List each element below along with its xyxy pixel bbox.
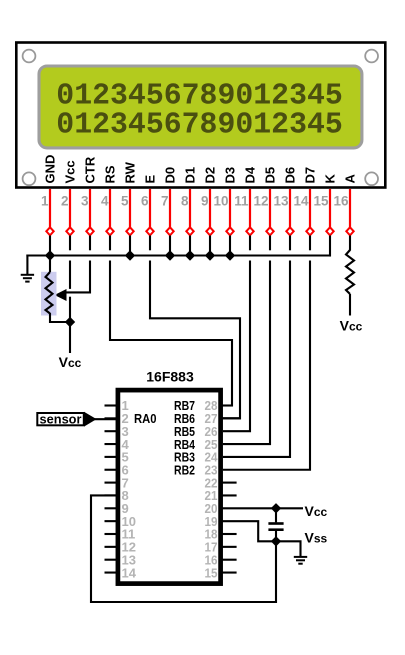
- wire U1 pin19 Vss: [221, 521, 276, 541]
- svg-text:5: 5: [121, 193, 129, 208]
- U1 left pin 7 stub: [105, 482, 118, 484]
- svg-text:15: 15: [205, 565, 218, 580]
- LCD pin 13 D6 red lead: [289, 189, 291, 227]
- svg-text:RA0: RA0: [134, 411, 157, 426]
- svg-text:D0: D0: [163, 167, 178, 184]
- svg-text:16F883: 16F883: [146, 369, 194, 385]
- junction Vdd / C1 top: [271, 503, 281, 513]
- svg-text:7: 7: [161, 193, 169, 208]
- svg-text:A: A: [343, 174, 358, 184]
- wire C1 bottom lead: [275, 531, 277, 542]
- U1 right pin 22 stub: [221, 482, 237, 484]
- U1 right pin 18 stub: [221, 533, 237, 535]
- svg-text:Vcc: Vcc: [63, 160, 78, 183]
- svg-text:13: 13: [273, 193, 289, 208]
- wire pin5 RW drop: [129, 236, 131, 257]
- wire pin10 D3 drop: [229, 236, 231, 257]
- LCD pin 11 connector diamond: [246, 227, 253, 235]
- LCD pin 12 D5 red lead: [269, 189, 271, 227]
- svg-text:D7: D7: [303, 167, 318, 184]
- potentiometer RV1 body: [41, 272, 57, 316]
- LCD pin 7 D0 red lead: [169, 189, 171, 227]
- wire R1 to Vcc: [349, 294, 351, 316]
- junction pot bottom / Vcc: [65, 317, 75, 327]
- LCD pin 9 connector diamond: [206, 227, 213, 235]
- wire U1 pin20 Vdd: [221, 507, 303, 509]
- svg-text:E: E: [143, 175, 158, 184]
- svg-text:1: 1: [41, 193, 49, 208]
- U1 left pin 3 stub: [105, 430, 118, 432]
- svg-text:10: 10: [213, 193, 228, 208]
- U1 right pin 15 stub: [221, 571, 237, 573]
- svg-text:RW: RW: [123, 161, 138, 183]
- wire pin7 D0 drop: [169, 236, 171, 257]
- svg-text:sensor: sensor: [40, 412, 82, 426]
- LCD pin 10 connector diamond: [226, 227, 233, 235]
- wire sensor to U1 pin2 RA0: [94, 418, 117, 420]
- wire pin4 RS upper: [109, 236, 111, 251]
- resistor R1: [346, 250, 354, 294]
- wire D5 upper: [269, 236, 271, 251]
- LCD pin 16 A red lead: [349, 189, 351, 227]
- U1 left pin 10 stub: [105, 520, 118, 522]
- wire RS route to U1 pin28: [110, 261, 232, 406]
- wire pin2 Vcc tail: [69, 322, 71, 353]
- svg-text:Vcc: Vcc: [340, 318, 363, 334]
- junction on GND bus x=130: [125, 250, 135, 260]
- LCD pin 6 E red lead: [149, 189, 151, 227]
- U1 left pin 12 stub: [105, 546, 118, 548]
- junction Vss / C1 bottom: [271, 536, 281, 546]
- LCD module box: [16, 43, 385, 188]
- wire pin16 A drop: [349, 236, 351, 251]
- wire D6 upper: [289, 236, 291, 251]
- wire pot top: [49, 256, 51, 273]
- svg-text:14: 14: [293, 193, 309, 208]
- junction on GND bus x=190: [185, 250, 195, 260]
- LCD pin 2 Vcc red lead: [69, 189, 71, 227]
- svg-text:Vcc: Vcc: [305, 503, 328, 519]
- LCD pin 7 connector diamond: [166, 227, 173, 235]
- junction on GND bus x=50: [45, 250, 55, 260]
- svg-text:D6: D6: [283, 167, 298, 184]
- svg-text:CTR: CTR: [83, 156, 98, 183]
- mounting hole top-right: [365, 50, 378, 63]
- LCD pin 16 connector diamond: [346, 227, 353, 235]
- mounting hole bottom-left: [23, 172, 36, 185]
- LCD pin 6 connector diamond: [146, 227, 153, 235]
- ground symbol (LCD): [21, 274, 34, 276]
- svg-text:15: 15: [313, 193, 329, 208]
- U1 pin 27 stub wire: [221, 417, 241, 419]
- capacitor C1: [268, 522, 283, 525]
- ground stub wire: [26, 255, 28, 275]
- junction on GND bus x=170: [165, 250, 175, 260]
- U1 right pin 17 stub: [221, 546, 237, 548]
- svg-text:D4: D4: [243, 166, 258, 183]
- wire D4 upper: [249, 236, 251, 251]
- U1 left pin 14 stub: [105, 571, 118, 573]
- mounting hole top-left: [23, 50, 36, 63]
- LCD pin 11 D4 red lead: [249, 189, 251, 227]
- wire C1 top lead: [275, 508, 277, 522]
- wire pin9 D2 drop: [209, 236, 211, 257]
- LCD pin 9 D2 red lead: [209, 189, 211, 227]
- wire D5 route to U1: [223, 261, 270, 445]
- LCD pin 4 connector diamond: [106, 227, 113, 235]
- LCD pin 4 RS red lead: [109, 189, 111, 227]
- svg-text:3: 3: [81, 193, 89, 208]
- U1 right pin 16 stub: [221, 559, 237, 561]
- wire D7 route to U1: [223, 261, 310, 470]
- LCD pin 14 D7 red lead: [309, 189, 311, 227]
- IC U1 body: [118, 390, 221, 583]
- wire pin1 GND drop: [49, 236, 51, 257]
- LCD pin 10 D3 red lead: [229, 189, 231, 227]
- ground symbol (C1): [294, 556, 307, 558]
- wire U1 pin8 Vss loop: [91, 495, 276, 602]
- LCD pin 1 connector diamond: [46, 227, 53, 235]
- svg-text:D3: D3: [223, 167, 238, 184]
- U1 pin 28 stub wire: [221, 404, 233, 406]
- U1 left pin 1 stub: [105, 404, 118, 406]
- LCD pin 15 connector diamond: [326, 227, 333, 235]
- svg-text:RB2: RB2: [174, 462, 195, 477]
- U1 left pin 5 stub: [105, 456, 118, 458]
- svg-text:2: 2: [61, 193, 69, 208]
- LCD pin 2 connector diamond: [66, 227, 73, 235]
- LCD pin 8 D1 red lead: [189, 189, 191, 227]
- wire D4 route to U1: [223, 261, 250, 432]
- sensor label box: [37, 413, 84, 425]
- svg-text:9: 9: [201, 193, 209, 208]
- LCD pin 13 connector diamond: [286, 227, 293, 235]
- svg-text:4: 4: [101, 193, 109, 208]
- LCD pin 14 connector diamond: [306, 227, 313, 235]
- svg-text:0123456789012345: 0123456789012345: [56, 107, 343, 142]
- U1 left pin 2 stub: [105, 417, 118, 419]
- wire pin15 K drop: [329, 236, 331, 257]
- sensor arrow: [84, 412, 97, 427]
- potentiometer wiper arrow: [55, 289, 67, 301]
- U1 right pin 21 stub: [221, 494, 237, 496]
- LCD pin 1 GND red lead: [49, 189, 51, 227]
- LCD pin 12 connector diamond: [266, 227, 273, 235]
- LCD pin 3 CTR red lead: [89, 189, 91, 227]
- svg-text:K: K: [323, 174, 338, 184]
- svg-text:11: 11: [234, 193, 249, 208]
- svg-text:8: 8: [181, 193, 189, 208]
- wire pin2 Vcc lower: [69, 297, 71, 322]
- svg-text:D1: D1: [183, 167, 198, 184]
- LCD screen: [39, 66, 362, 148]
- wire D7 upper: [309, 236, 311, 251]
- wire pot bottom: [50, 313, 70, 322]
- svg-text:16: 16: [333, 193, 349, 208]
- wire E route to U1 pin27: [150, 261, 240, 419]
- wire to ground (C1): [276, 541, 301, 556]
- wire D6 route to U1: [223, 261, 290, 457]
- wire pin3 CTR upper: [89, 236, 91, 251]
- svg-text:D5: D5: [263, 167, 278, 184]
- LCD pin 8 connector diamond: [186, 227, 193, 235]
- svg-text:14: 14: [122, 565, 137, 580]
- junction on GND bus x=230: [225, 250, 235, 260]
- wire pin2 Vcc upper: [69, 236, 71, 251]
- U1 left pin 6 stub: [105, 469, 118, 471]
- U1 left pin 4 stub: [105, 443, 118, 445]
- svg-text:12: 12: [253, 193, 268, 208]
- LCD pin 5 connector diamond: [126, 227, 133, 235]
- svg-text:6: 6: [141, 193, 149, 208]
- svg-text:RS: RS: [103, 165, 118, 183]
- junction on GND bus x=210: [205, 250, 215, 260]
- U1 left pin 11 stub: [105, 533, 118, 535]
- svg-text:D2: D2: [203, 167, 218, 184]
- svg-text:Vcc: Vcc: [59, 354, 82, 370]
- wire pin8 D1 drop: [189, 236, 191, 257]
- U1 left pin 9 stub: [105, 507, 118, 509]
- wire pin6 E upper: [149, 236, 151, 251]
- LCD pin 15 K red lead: [329, 189, 331, 227]
- svg-text:Vss: Vss: [305, 529, 328, 545]
- mounting hole bottom-right: [365, 172, 378, 185]
- potentiometer RV1 zigzag: [46, 272, 53, 314]
- LCD pin 5 RW red lead: [129, 189, 131, 227]
- wire pin2 Vcc mid: [69, 261, 71, 289]
- U1 left pin 8 stub: [105, 494, 118, 496]
- GND bus wire: [26, 254, 331, 256]
- wire pin3 CTR to wiper: [64, 261, 90, 293]
- LCD pin 3 connector diamond: [86, 227, 93, 235]
- U1 left pin 13 stub: [105, 559, 118, 561]
- svg-text:GND: GND: [43, 155, 58, 184]
